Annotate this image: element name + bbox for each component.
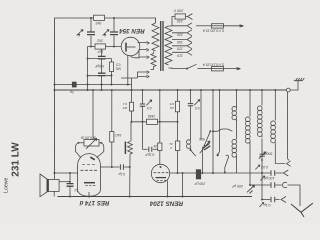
wire: heater tap arrow row y76.5 [138,75,150,78]
capacitor 0,5uF plates [98,73,106,75]
capacitor trimmer plates x190.5 [188,104,193,106]
potentiometer 0,05M box [84,140,99,146]
resistor 0,5 vertical x177.5 [175,101,179,112]
selector tap row 125 [172,43,192,49]
wire: horizontal y46.5 [88,46,122,48]
wire: heater winding top lead [153,52,155,54]
transformer HT secondary winding (left top) [152,23,159,51]
wire: x190.5 down to resistor [190,106,192,140]
capacitor coupling plates series [120,164,123,169]
wire: L5 bottom stub [275,144,285,164]
wire: primary bottom to mains switch [169,67,187,70]
resistor 0,5M vertical [110,62,114,72]
wire: antenna column from terminal down [288,92,290,160]
band switch blade 2 [225,155,229,172]
trimmer arrow x142.5 [146,100,152,106]
svg-text:1µF: 1µF [97,49,104,53]
selector tap row 240 (mains feed) [172,23,192,29]
svg-text:0,5: 0,5 [147,106,152,110]
phone row1 y173 continues anode rail [237,172,271,174]
speaker diaphragm bar [47,179,49,192]
contact hook row3 [281,197,286,203]
svg-text:1µ: 1µ [70,90,74,94]
capacitor 0,1 plates [271,197,275,203]
selector row 200V contact arrow [186,14,193,20]
band switch blade 1 [204,131,210,145]
phone row2 y185 [250,184,270,186]
coil L5 x277 [274,90,276,121]
tube RENS1204 envelope [151,164,169,182]
wire: stub x182.5 rail to bus [182,173,184,197]
tube RES174d anode dashes [82,163,95,165]
trimmer mark 0,02 [255,165,259,170]
wire: screen column x177.5 [177,90,179,101]
capacitor 1uF plates [98,56,106,59]
node junction top rail at x91 [90,17,92,19]
fuse Si 0,2/0,15A [212,24,224,28]
wire: speaker output to cap [59,181,70,183]
tube RES174d filament marks [86,185,96,187]
svg-text:1µ: 1µ [75,188,79,192]
wire: heater winding bottom lead [151,67,154,70]
wire: 0,5M bottom lead to bus1 [111,72,113,85]
wire: pot right end down to tube lead [97,143,104,158]
wire: REN354 plate to HT winding with arrow [138,42,150,45]
svg-text:2: 2 [170,146,173,150]
node bottom bus x129.7 [129,196,131,198]
capacitor trimmer C1 plates [87,32,95,35]
speaker cone [40,174,48,197]
wire: 1k bottom to output rail y167 [111,142,113,167]
headphone plug [291,203,313,217]
wire between caps [101,59,103,73]
svg-text:500: 500 [199,137,205,141]
wire: grid cap row horizontal [143,148,148,150]
node bus2 x54.5 [54,89,56,91]
tube RES174d top cap contact [90,157,95,160]
node x114 y46.5 [113,46,115,48]
wire: detector row y58.6 [88,58,112,60]
wire: 0,5M top lead [111,59,113,62]
wire: left grid column x91 [90,18,92,32]
choke coil small x190.5 [187,140,191,144]
svg-text:3k 0,05 3k: 3k 0,05 3k [81,135,97,139]
node junction top rail at x114 [113,17,115,19]
wire: x177.5 down to anode rail y173 [177,112,179,173]
svg-text:0,5µF: 0,5µF [94,64,104,68]
wire: horizontal rail y120.5 [132,121,178,123]
svg-text:150: 150 [177,40,183,44]
wire: B+ column x131.5 bus to resistor [131,85,133,103]
switch blade from x190.5 [191,148,196,156]
wire: mains lead arrow end [224,25,244,27]
tube RES174d envelope [78,154,101,190]
tube RENS1204 cathode bar [156,177,167,179]
ground earth symbol [294,78,305,81]
wire: REN354 filament loop to winding with arrow [131,49,150,58]
wire: pot left stub [79,142,85,144]
transformer primary winding [165,26,172,65]
capacitor 0,02 plates [271,170,275,176]
wire: grid cap row to x160.5 [153,148,160,150]
tube RENS1204 grid dashes [154,172,169,174]
contact circle row2 [282,182,287,187]
selector tap row 150 [172,37,192,43]
node bus1 x130.5 [127,84,129,86]
trimmer arrow x190.5 [194,100,200,106]
wire: RES output rail y167 [100,166,119,168]
wire: HT winding centre tap arrow row y57 [139,56,149,59]
resistor 0k3 in top rail [94,15,105,20]
wire: pot wiper column x93 from bus2 [92,90,94,140]
capacitor trimmer plates x142.5 [140,104,145,106]
node x177.5 y173 [177,172,179,174]
wire: column x201 bus2 down to 500pF trimmer [200,90,202,140]
svg-text:0,5µF: 0,5µF [144,153,154,157]
capacitor 0,5uF series plates [149,147,152,152]
wire: column x101.5 down from 2k2 [101,49,103,56]
coil L3 x250 [249,90,251,117]
wire: terminal to earth [290,81,298,90]
node bus1 x87.5 [87,84,89,86]
capacitor 1u block on bus1 [72,82,76,87]
hook contact open [287,161,291,167]
svg-text:MΩ: MΩ [115,66,121,70]
svg-text:RES 174 d: RES 174 d [79,199,109,206]
node bus2 x131.5 [131,89,133,91]
wire: column x160.5 bus2 down to RENS1204 grid [159,90,161,143]
output choke core bar [124,142,126,155]
wire: mains lead 2 arrow end [224,68,241,70]
wire: grid column x114 [113,18,115,32]
svg-text:0,02: 0,02 [261,165,268,169]
wire: RENS1204 cathode to bottom bus [167,181,169,197]
svg-text:S.V.0,2/0,15 A: S.V.0,2/0,15 A [202,28,224,32]
node x91 y46.5 [90,46,92,48]
wire: x142.5 cap down to grid cap row [142,106,144,149]
phone row3 y199.5 [262,199,270,201]
wire: column x213 bus2 down to anode rail [212,90,214,173]
node x160.5 y149.3 [159,148,161,150]
wire: 2k bottom to tube top [159,151,161,165]
capacitor 100 plates [271,182,275,188]
resistor 2k2 on y46.5 [95,44,106,49]
svg-text:0,1µ: 0,1µ [118,172,125,176]
wire: row2 to plug [288,185,301,206]
svg-text:100 pF: 100 pF [263,176,275,180]
wire: 1k top lead to bus2 [111,90,113,132]
svg-text:110: 110 [177,53,183,57]
wire: speaker bottom to bus [53,191,55,196]
tube REN354 envelope [121,37,140,56]
tube RES174d grid dashes [81,169,98,171]
bottom bus y196.5 [58,196,253,198]
capacitor trimmer C2 plates [110,32,118,35]
terminal circle right end of bus2 [286,88,290,92]
coil L4 x262 [261,90,263,106]
wire: pot right stub [99,142,101,144]
wire: heater tap arrow row y72 [138,71,150,78]
wire: pot left end down to tube lead [76,143,81,158]
trimmer mark 100 [260,176,265,181]
tube RENS1204 top cap node [160,166,162,168]
svg-text:231 LW: 231 LW [10,142,21,177]
svg-text:200 V: 200 V [173,9,184,13]
node x177.5 y120.5 [177,121,179,123]
wire: REN354 cathode down to bus1 [127,56,129,85]
trimmer mark 500pF [259,152,266,162]
resistor 1M on rail y120.5 [147,119,158,124]
wire: heater wire y78 [121,77,138,79]
wire: RENS1204 anode rail y173 [170,172,237,174]
svg-text:200 µF: 200 µF [231,184,244,188]
capacitor 200pF block on rail y173 [196,170,200,179]
wire: hook from x213 to coil 1 top [213,129,233,131]
wire: choke bottom to bottom bus [129,154,131,197]
svg-text:0,5: 0,5 [170,102,175,106]
svg-text:S.V.0,1/0,35 A: S.V.0,1/0,35 A [202,62,224,66]
resistor 1k vertical x111.8 [110,132,114,143]
wire: speaker top lead from left vertical [54,173,56,179]
capacitor trimmer 500 diagonal plates [203,144,210,150]
svg-text:RENS 1204: RENS 1204 [149,200,183,207]
transformer heater winding (left bottom) [151,54,156,67]
wire: left column x87.5 down to buses [87,47,89,91]
tube RES174d top arc [78,190,101,196]
speaker driver box [49,179,60,191]
wire between L1 sections [236,120,238,140]
svg-text:0,1: 0,1 [123,102,128,106]
svg-text:0,5: 0,5 [116,62,121,66]
trimmer arrow for C1 [77,30,84,37]
node x142.5 y120.5 [142,121,144,123]
capacitor 1u bypass [69,173,71,183]
svg-text:2k: 2k [153,144,158,148]
wire: detector row y75.7 [88,75,112,77]
contact hook row1 [283,170,288,176]
bus2 chassis rail y90 [55,89,287,91]
svg-text:0k: 0k [169,142,173,146]
wire: cap bottom down to chassis bus [101,76,103,90]
svg-text:0,5: 0,5 [195,106,200,110]
node bus1 x54.5 [54,84,56,86]
wire: column x219 bus2 down contact arrow [219,90,221,152]
wire: top rail from left vertical to transformer [55,18,156,173]
wire: grid return rail y173 left [55,172,78,174]
trimmer arrow 200 at bus end [247,185,255,193]
node x130.5 y120.5 [131,121,133,123]
wire: RES174d bottom lead to bus [88,192,90,197]
svg-text:200 pF: 200 pF [193,182,206,186]
wire: column x190.5 bus2 down [190,90,192,103]
trimmer arrow for C2 [103,30,110,37]
tube REN354 grid bar [127,46,136,48]
svg-text:125: 125 [177,46,183,50]
bus1 HT rail y84.5 [55,78,132,85]
wire: switch to fuse 2 [198,68,212,70]
selector tap row 110 [172,49,192,55]
wire: L4 bottom down to phone rows [261,139,263,200]
svg-text:Loewe: Loewe [3,178,9,193]
coil L1 upper (antenna) x236.5 [236,90,238,108]
wire: resistor to y120.5 rail [131,111,133,122]
svg-text:0,1µ: 0,1µ [264,203,271,207]
resistor 2k vertical x160.5 [158,143,162,151]
wire: L3 bottom to row2 [249,144,251,186]
resistor 0k2 vertical x177.5 lower [175,141,179,151]
wire: coupling cap to choke column [124,166,129,168]
node x202.4 y173 [201,172,203,174]
tube RENS1204 heater dashes [157,179,167,181]
svg-text:2k2: 2k2 [97,38,104,42]
svg-text:1kΩ: 1kΩ [115,133,121,137]
transformer core bars [161,21,163,71]
tube RES174d cathode bar [84,182,95,184]
wire: primary top to selector [169,17,176,27]
wire: L2 bottom to anode rail [236,158,238,174]
svg-text:240: 240 [177,19,184,23]
wire: mains lead through fuse [196,25,212,27]
mains switch blade [187,64,197,68]
output choke winding zigzag [128,142,133,155]
svg-text:220: 220 [177,33,184,37]
svg-text:500pF: 500pF [262,152,273,156]
coil L2 lower x236.5 [232,139,237,144]
potentiometer wiper arrow [86,138,97,149]
svg-text:1MΩ: 1MΩ [147,114,155,118]
wire: anode cap column x142.5 [142,90,144,104]
selector row 200V resistor box [175,14,186,19]
tube REN354 anode bar [125,43,127,52]
svg-text:REN 354: REN 354 [119,27,145,34]
wire: trimmer down to anode rail [201,147,203,173]
resistor 0,1M vertical x130.5 [129,102,133,111]
wire: choke feed x130.5 down [130,122,132,142]
trimmer mark 0,1 [259,202,264,207]
selector tap row 220 [172,30,192,36]
fuse Si 0,1/0,35A [212,67,224,71]
svg-text:0k3: 0k3 [96,21,102,25]
